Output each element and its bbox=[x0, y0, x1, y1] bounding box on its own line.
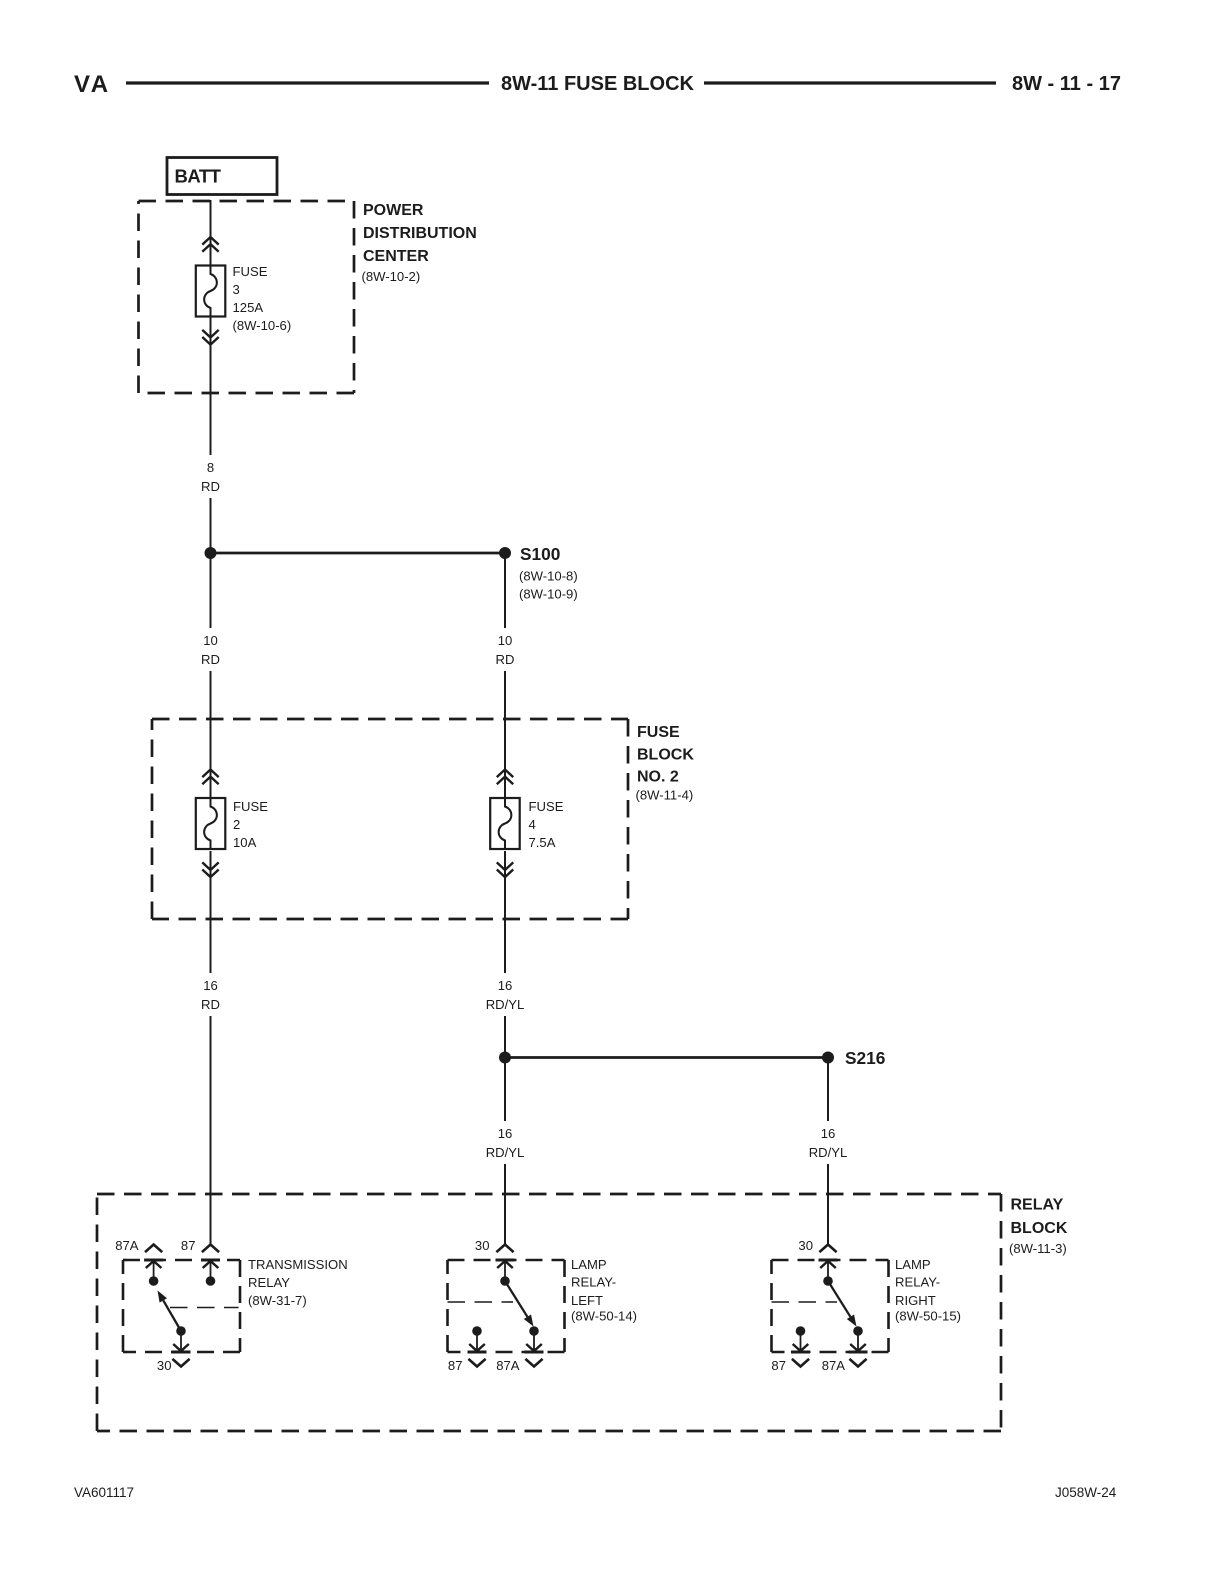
svg-text:16: 16 bbox=[821, 1126, 836, 1141]
connector chevron pin 87 bbox=[202, 1245, 219, 1253]
pin 87 terminal right relay bbox=[791, 1326, 810, 1352]
svg-text:30: 30 bbox=[798, 1238, 813, 1253]
fuse F2 value labels bbox=[233, 799, 268, 850]
junction dot S100 bbox=[499, 547, 511, 559]
svg-text:RELAY-: RELAY- bbox=[571, 1275, 616, 1290]
pin 87 terminal left relay bbox=[468, 1326, 487, 1352]
wire from BATT into PDC bbox=[210, 200, 212, 266]
svg-text:LAMP: LAMP bbox=[571, 1257, 607, 1272]
fuse F2 bbox=[196, 798, 226, 849]
svg-text:FUSE: FUSE bbox=[233, 264, 268, 279]
splice wire S100 bbox=[211, 552, 506, 555]
svg-text:RD/YL: RD/YL bbox=[486, 1145, 525, 1160]
svg-text:BATT: BATT bbox=[175, 166, 222, 187]
svg-text:(8W-10-2): (8W-10-2) bbox=[362, 269, 421, 284]
svg-text:RELAY-: RELAY- bbox=[895, 1275, 940, 1290]
svg-text:BLOCK: BLOCK bbox=[637, 747, 694, 764]
relay switch arm left relay bbox=[505, 1281, 534, 1327]
wire label 16 RD/YL lower right bbox=[806, 1121, 851, 1164]
svg-text:2: 2 bbox=[233, 817, 240, 832]
svg-text:10A: 10A bbox=[233, 835, 257, 850]
svg-text:LEFT: LEFT bbox=[571, 1293, 603, 1308]
svg-text:RELAY: RELAY bbox=[248, 1275, 290, 1290]
svg-text:RD: RD bbox=[201, 479, 220, 494]
svg-text:RD/YL: RD/YL bbox=[809, 1145, 848, 1160]
lamp relay right box bbox=[772, 1260, 889, 1352]
pin 30 terminal right relay bbox=[819, 1260, 838, 1286]
relay contact divider left relay bbox=[448, 1301, 514, 1303]
svg-text:87A: 87A bbox=[115, 1238, 139, 1253]
header rule left bbox=[126, 81, 489, 84]
pin 87 terminal bbox=[201, 1260, 220, 1286]
svg-text:8: 8 bbox=[207, 460, 214, 475]
svg-text:POWER: POWER bbox=[363, 202, 424, 219]
svg-text:(8W-50-15): (8W-50-15) bbox=[895, 1309, 961, 1324]
wire S216 to lamp relay left bbox=[504, 1058, 506, 1245]
svg-text:(8W-31-7): (8W-31-7) bbox=[248, 1293, 307, 1308]
svg-text:FUSE: FUSE bbox=[637, 724, 680, 741]
wire fuse 4 to splice S216 bbox=[504, 851, 506, 1058]
wire label 8 RD bbox=[198, 455, 223, 498]
relay contact divider bbox=[170, 1307, 239, 1309]
svg-text:87: 87 bbox=[771, 1358, 786, 1373]
svg-text:J058W-24: J058W-24 bbox=[1055, 1485, 1117, 1500]
battery feed box BATT bbox=[167, 158, 277, 195]
connector chevrons below fuse F3 bbox=[202, 330, 218, 345]
relay block label bbox=[1009, 1197, 1068, 1257]
svg-text:CENTER: CENTER bbox=[363, 248, 429, 265]
pin 30 terminal left relay bbox=[496, 1260, 515, 1286]
wire S100 right branch to fuse 4 bbox=[504, 553, 506, 798]
svg-text:125A: 125A bbox=[233, 300, 264, 315]
pin 87A terminal right relay bbox=[849, 1326, 868, 1352]
svg-text:VA601117: VA601117 bbox=[74, 1485, 134, 1500]
svg-text:RD/YL: RD/YL bbox=[486, 997, 525, 1012]
svg-text:(8W-50-14): (8W-50-14) bbox=[571, 1309, 637, 1324]
connector chevron pin 30 right relay bbox=[819, 1245, 836, 1253]
svg-text:10: 10 bbox=[203, 633, 218, 648]
lamp relay right label bbox=[895, 1257, 961, 1324]
junction dot S216 bbox=[822, 1052, 834, 1064]
svg-text:7.5A: 7.5A bbox=[529, 835, 556, 850]
svg-text:VA: VA bbox=[74, 71, 111, 98]
svg-text:RIGHT: RIGHT bbox=[895, 1293, 936, 1308]
svg-text:8W-11 FUSE BLOCK: 8W-11 FUSE BLOCK bbox=[501, 73, 695, 95]
svg-text:(8W-10-8): (8W-10-8) bbox=[519, 569, 578, 584]
svg-text:16: 16 bbox=[498, 1126, 513, 1141]
junction dot left of S100 bbox=[205, 547, 217, 559]
fuse F3 bbox=[196, 266, 226, 317]
svg-text:FUSE: FUSE bbox=[529, 799, 564, 814]
svg-text:(8W-10-6): (8W-10-6) bbox=[233, 318, 292, 333]
connector chevrons above fuse F3 bbox=[202, 237, 218, 252]
svg-text:3: 3 bbox=[233, 282, 240, 297]
svg-text:16: 16 bbox=[203, 978, 218, 993]
connector chevron pin 30 bbox=[172, 1359, 189, 1367]
wire label 16 RD/YL upper bbox=[483, 973, 528, 1016]
svg-text:S216: S216 bbox=[845, 1048, 885, 1068]
relay switch arm bbox=[158, 1291, 182, 1332]
svg-text:BLOCK: BLOCK bbox=[1011, 1220, 1068, 1237]
fuse block no. 2 label bbox=[636, 724, 695, 803]
svg-text:30: 30 bbox=[475, 1238, 490, 1253]
svg-text:RD: RD bbox=[201, 997, 220, 1012]
wire label 16 RD/YL lower middle bbox=[483, 1121, 528, 1164]
svg-text:4: 4 bbox=[529, 817, 536, 832]
svg-text:10: 10 bbox=[498, 633, 513, 648]
connector chevron pin 87A right relay bbox=[849, 1359, 866, 1367]
svg-text:LAMP: LAMP bbox=[895, 1257, 931, 1272]
svg-text:87A: 87A bbox=[496, 1358, 520, 1373]
wire fuse 3 to splice S100 bbox=[210, 317, 212, 554]
fuse F4 value labels bbox=[529, 799, 564, 850]
pin 30 terminal bbox=[172, 1326, 191, 1352]
svg-text:8W - 11 - 17: 8W - 11 - 17 bbox=[1012, 73, 1121, 95]
wire label 10 RD left bbox=[198, 628, 223, 671]
svg-text:87: 87 bbox=[181, 1238, 196, 1253]
splice wire S216 bbox=[505, 1056, 828, 1059]
connector chevrons above fuse F4 bbox=[497, 770, 513, 785]
svg-text:(8W-11-3): (8W-11-3) bbox=[1009, 1241, 1067, 1256]
pin 87A terminal bbox=[144, 1260, 163, 1286]
wire label 16 RD bbox=[198, 973, 223, 1016]
svg-text:NO. 2: NO. 2 bbox=[637, 769, 679, 786]
lamp relay left label bbox=[571, 1257, 637, 1324]
connector chevrons below fuse F4 bbox=[497, 862, 513, 877]
svg-text:FUSE: FUSE bbox=[233, 799, 268, 814]
connector chevrons above fuse F2 bbox=[202, 770, 218, 785]
fuse F3 value labels bbox=[233, 264, 292, 333]
svg-text:RD: RD bbox=[201, 652, 220, 667]
header rule right bbox=[704, 81, 996, 84]
connector chevron pin 87A left relay bbox=[525, 1359, 542, 1367]
relay switch arm right relay bbox=[828, 1281, 857, 1327]
relay block box bbox=[97, 1194, 1001, 1431]
svg-text:S100: S100 bbox=[520, 544, 560, 564]
connector chevron pin 30 left relay bbox=[496, 1245, 513, 1253]
wire S100 left branch to fuse 2 bbox=[210, 553, 212, 798]
svg-text:16: 16 bbox=[498, 978, 513, 993]
connector chevrons below fuse F2 bbox=[202, 862, 218, 877]
power distribution center label bbox=[362, 202, 477, 284]
connector chevron pin 87 left relay bbox=[468, 1359, 485, 1367]
connector chevron pin 87 right relay bbox=[792, 1359, 809, 1367]
wire fuse 2 to transmission relay bbox=[210, 851, 212, 1244]
svg-text:DISTRIBUTION: DISTRIBUTION bbox=[363, 225, 477, 242]
svg-text:87: 87 bbox=[448, 1358, 463, 1373]
splice label S100 bbox=[519, 544, 578, 602]
wire label 10 RD right bbox=[493, 628, 518, 671]
lamp relay left box bbox=[448, 1260, 565, 1352]
svg-text:(8W-11-4): (8W-11-4) bbox=[636, 788, 694, 803]
svg-text:RELAY: RELAY bbox=[1011, 1197, 1064, 1214]
svg-text:TRANSMISSION: TRANSMISSION bbox=[248, 1257, 348, 1272]
wire S216 to lamp relay right bbox=[827, 1058, 829, 1245]
svg-text:30: 30 bbox=[157, 1358, 172, 1373]
transmission relay label bbox=[248, 1257, 348, 1308]
relay contact divider right relay bbox=[772, 1301, 838, 1303]
junction dot left of S216 bbox=[499, 1052, 511, 1064]
svg-text:87A: 87A bbox=[822, 1358, 846, 1373]
transmission relay box bbox=[123, 1260, 240, 1352]
pin 87A terminal left relay bbox=[525, 1326, 544, 1352]
fuse F4 bbox=[490, 798, 520, 849]
power distribution center box bbox=[139, 201, 355, 393]
fuse block no. 2 box bbox=[152, 719, 628, 919]
connector chevron pin 87A bbox=[145, 1245, 162, 1253]
svg-text:RD: RD bbox=[496, 652, 515, 667]
svg-text:(8W-10-9): (8W-10-9) bbox=[519, 587, 578, 602]
